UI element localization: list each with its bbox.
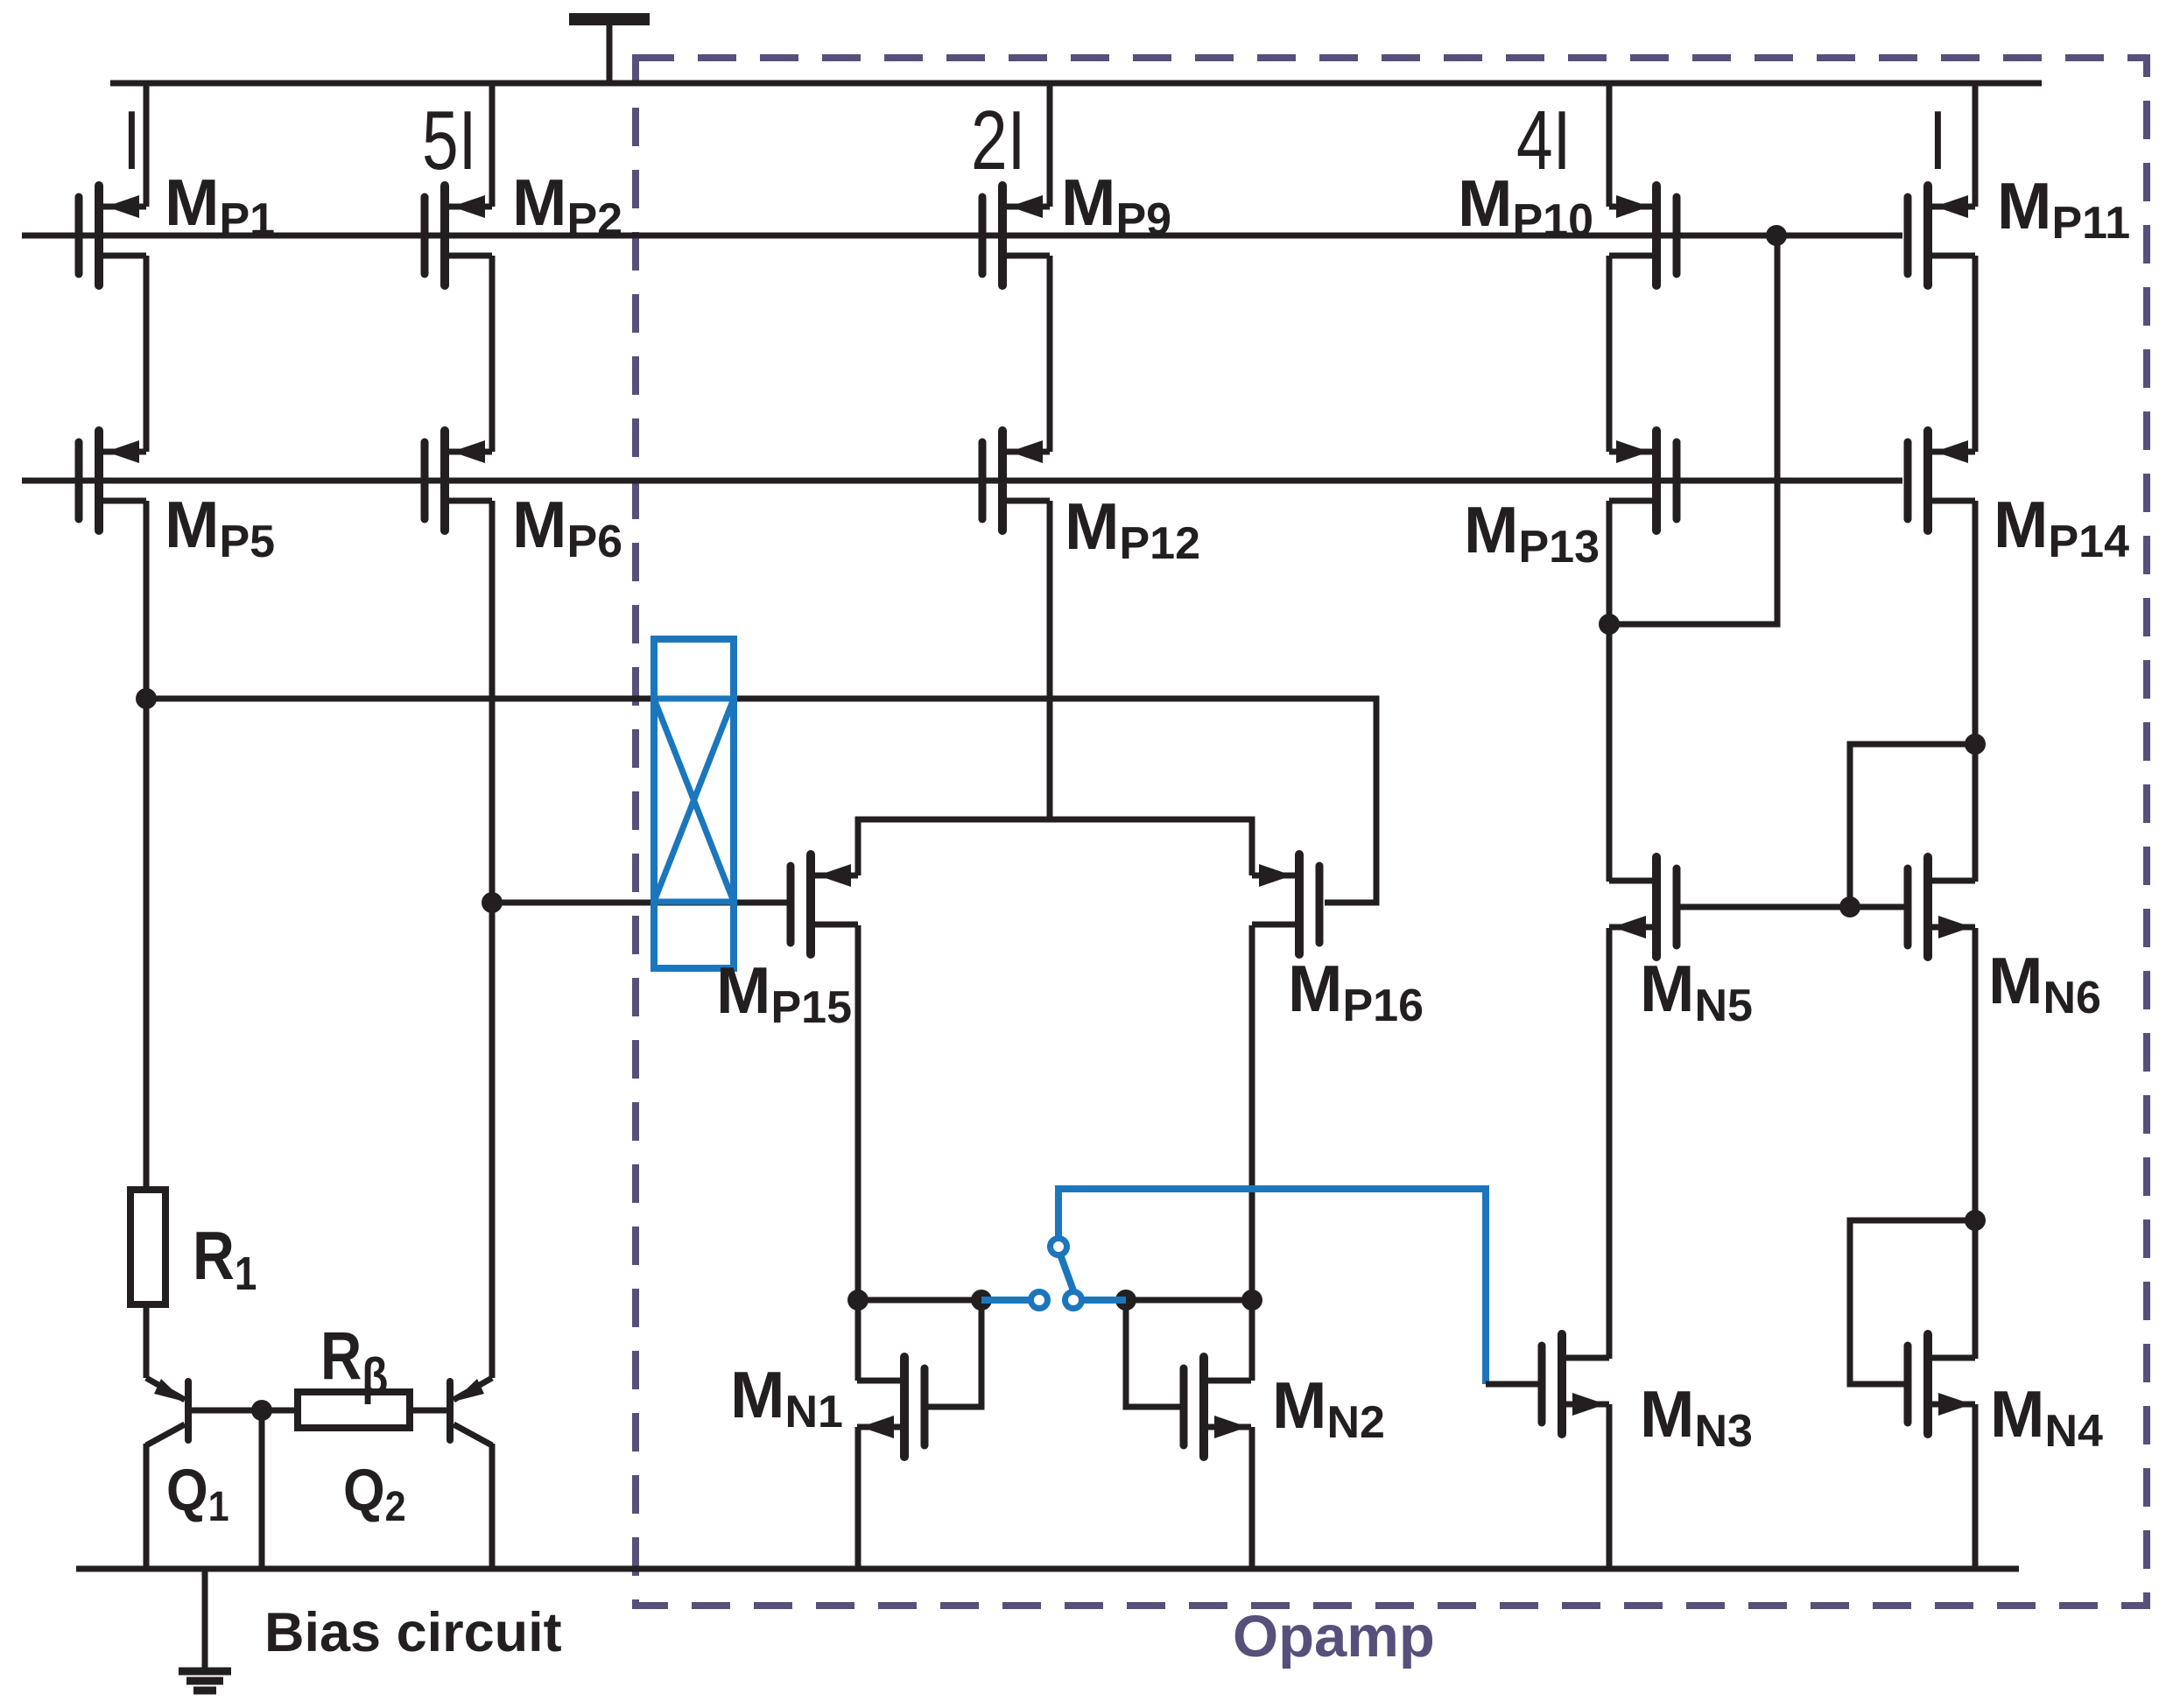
wire MN5-MN6 gate link [1680, 904, 1904, 910]
wire Q1 base to node [192, 1408, 298, 1414]
transistor MP12 [982, 431, 1050, 531]
resistor R1 [130, 1190, 165, 1304]
transistor MP16 [1252, 854, 1319, 954]
svg-text:Opamp: Opamp [1233, 1604, 1435, 1669]
wire ground rail [76, 1566, 2019, 1572]
transistor MN3 [1542, 1334, 1609, 1434]
wire MN3 source to ground [1607, 1404, 1613, 1569]
switch S1 common contact [1051, 1239, 1067, 1255]
svg-text:MN4: MN4 [1990, 1377, 2103, 1457]
wire MP1 source from VDD [144, 83, 150, 207]
svg-text:4I: 4I [1516, 94, 1571, 187]
transistor MP6 [425, 431, 492, 531]
node base link [251, 1400, 272, 1421]
node MN6 gate-drain tie [1965, 734, 1986, 755]
wire MP10 source from VDD [1607, 83, 1613, 207]
wire MP12 drain to diff pair tail [1047, 501, 1053, 819]
svg-text:Q1: Q1 [166, 1456, 229, 1530]
node MN1 drain [847, 1290, 868, 1311]
svg-text:2I: 2I [971, 94, 1025, 187]
wire chopper input B to MP15 gate [492, 900, 787, 906]
wire diff pair tail [858, 819, 1252, 875]
wire MP13 drain node to row1 bus [1609, 235, 1777, 624]
node row1 bus to MP13-drain link [1766, 225, 1787, 246]
svg-text:MP1: MP1 [165, 165, 275, 245]
node MP13 drain [1599, 614, 1620, 635]
transistor MN5 [1609, 857, 1677, 957]
svg-text:Q2: Q2 [343, 1456, 406, 1530]
chopper CH1 box [654, 639, 734, 968]
svg-text:Bias circuit: Bias circuit [264, 1602, 562, 1663]
transistor Q1 [146, 1378, 188, 1569]
node MN2 gate tap [1115, 1290, 1136, 1311]
switch S1 left contact [1031, 1292, 1048, 1309]
wire MN6 source to MN4 drain [1973, 928, 1979, 1359]
wire MP11 drain to MP14 source [1973, 256, 1979, 452]
transistor MN1 [857, 1357, 925, 1457]
wire MP1 drain to MP5 source [144, 256, 150, 452]
transistor MP13 [1609, 431, 1677, 531]
node MN4 gate-drain tie [1965, 1210, 1986, 1231]
transistor MP10 [1609, 186, 1677, 285]
wire MP11 source from VDD [1973, 83, 1979, 207]
wire MP9 drain to MP12 source [1047, 256, 1053, 452]
wire MP15 drain to MN1 drain [855, 925, 861, 1381]
transistor Q2 [450, 1378, 492, 1569]
wire VDD rail [110, 81, 2042, 87]
transistor MP9 [982, 186, 1050, 285]
opamp dashed boundary box [636, 58, 2147, 1606]
svg-text:Rβ: Rβ [320, 1318, 388, 1405]
wire MN4 diode connection [1850, 1220, 1975, 1384]
svg-text:I: I [123, 94, 141, 187]
resistor Rbeta [298, 1392, 410, 1428]
transistor MN6 [1908, 857, 1975, 957]
node MP6 drain / chopper input B [482, 892, 503, 913]
transistor MP2 [425, 186, 492, 285]
transistor MN4 [1908, 1334, 1975, 1434]
wire MP9 source from VDD [1047, 83, 1053, 207]
wire MN4 source to ground [1973, 1404, 1979, 1569]
svg-text:I: I [1929, 94, 1947, 187]
wire MN2 source to ground [1249, 1427, 1255, 1569]
switch S1 left contact stub [981, 1297, 1030, 1304]
wire MP2 drain to MP6 source [489, 256, 496, 452]
wire MP16 drain to MN2 drain [1249, 925, 1255, 1381]
wire MP13 drain to MN5 drain [1607, 501, 1613, 882]
wire MP10 drain to MP13 source [1607, 256, 1613, 452]
wire Rbeta to Q2 base [410, 1408, 447, 1414]
node MN1 gate tap [971, 1290, 992, 1311]
wire base node to ground [259, 1410, 265, 1569]
wire MN1 source to ground [855, 1427, 861, 1569]
svg-text:MP14: MP14 [1994, 488, 2129, 567]
transistor MP11 [1908, 186, 1975, 285]
svg-text:MP5: MP5 [165, 488, 275, 567]
wire MN1 gate-drain link [858, 1297, 981, 1304]
wire gate bus row1 [22, 233, 1902, 239]
svg-text:MN5: MN5 [1640, 952, 1753, 1031]
svg-text:MP16: MP16 [1288, 952, 1424, 1031]
wire MN3 gate [1486, 1381, 1538, 1388]
switch S1 lever [1060, 1255, 1074, 1293]
svg-text:5I: 5I [422, 94, 476, 187]
chopper CH1 cross [654, 699, 734, 902]
wire MN2 gate link [1126, 1297, 1252, 1304]
switch S1 right stub [1083, 1297, 1126, 1304]
transistor MP14 [1908, 431, 1975, 531]
node MP5 drain / chopper input A [136, 688, 157, 709]
transistor MP5 [79, 431, 146, 531]
svg-text:MP9: MP9 [1061, 165, 1171, 245]
wire MN5 source to MN3 drain [1607, 928, 1613, 1359]
ground [179, 1569, 231, 1690]
node MN5-MN6 gate [1839, 896, 1860, 917]
transistor MN2 [1184, 1357, 1251, 1457]
wire MN6 diode connection [1850, 744, 1975, 907]
VDD supply symbol [569, 19, 650, 83]
svg-text:MN1: MN1 [730, 1358, 843, 1437]
svg-text:MP12: MP12 [1065, 489, 1200, 569]
wire MP14 drain to MN6 drain [1973, 501, 1979, 882]
wire MP6 drain to Q2 emitter [489, 501, 496, 1378]
wire MP2 source from VDD [489, 83, 496, 207]
svg-text:MP2: MP2 [512, 165, 622, 245]
svg-text:MP15: MP15 [716, 953, 852, 1033]
svg-text:MP13: MP13 [1464, 493, 1600, 573]
svg-text:R1: R1 [193, 1218, 257, 1300]
svg-text:MN3: MN3 [1640, 1377, 1753, 1457]
transistor MP15 [791, 854, 858, 954]
svg-text:MN6: MN6 [1988, 944, 2101, 1023]
svg-text:MN2: MN2 [1272, 1368, 1385, 1448]
switch S1 pole contact [1065, 1292, 1082, 1309]
wire MN1 gate down [928, 1300, 981, 1407]
wire switch common to MN3 gate (blue) [1058, 1189, 1486, 1384]
transistor MP1 [79, 186, 146, 285]
svg-text:MP6: MP6 [512, 488, 622, 567]
wire R1 to Q1 emitter [144, 1304, 150, 1378]
wire gate bus row2 [22, 478, 1902, 484]
wire MN2 gate down [1126, 1300, 1180, 1407]
node MN2 drain [1241, 1290, 1262, 1311]
wire chopper input A to MP16 gate [146, 699, 1376, 903]
svg-text:MP11: MP11 [1997, 169, 2130, 249]
wire MP5 drain to R1 [144, 501, 150, 1190]
